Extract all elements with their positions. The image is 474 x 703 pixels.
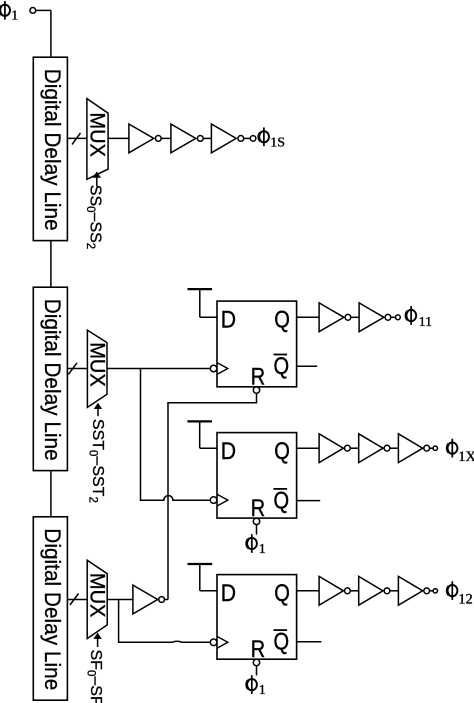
digital delay line U1 bbox=[33, 57, 67, 240]
wire MUX3 output branch to FF3 clock bbox=[119, 600, 211, 643]
inverter U7 bbox=[359, 303, 391, 332]
select arrow MUX1 bbox=[93, 172, 101, 187]
svg-text:Digital Delay Line: Digital Delay Line bbox=[40, 528, 65, 690]
flip-flop FF1 bbox=[210, 301, 296, 393]
svg-text:Q: Q bbox=[274, 629, 290, 656]
node phi11 output label bbox=[406, 306, 432, 330]
wire MUX2 output to FF1 clock bbox=[107, 368, 210, 370]
wire U6 to U7 bbox=[351, 316, 359, 318]
wire delay line 3 to MUX3 (bus) bbox=[67, 599, 87, 601]
inverter U6 bbox=[319, 303, 351, 332]
wire FF1 Q output bbox=[297, 316, 320, 318]
wire FF2 R input stem bbox=[256, 525, 258, 535]
bus slash MUX3 input bbox=[70, 594, 79, 606]
wire U10 output to FF1 R line bbox=[165, 598, 169, 600]
svg-text:1: 1 bbox=[259, 542, 266, 557]
svg-text:D: D bbox=[221, 438, 236, 465]
svg-text:12: 12 bbox=[458, 592, 473, 608]
output terminal phi12 bbox=[433, 589, 437, 593]
svg-text:SS0–SS2: SS0–SS2 bbox=[84, 185, 104, 249]
svg-text:Digital Delay Line: Digital Delay Line bbox=[40, 299, 65, 461]
wire delay line 2 to delay line 3 bbox=[50, 471, 52, 517]
output terminal phi1X bbox=[433, 446, 437, 450]
svg-text:MUX: MUX bbox=[86, 112, 109, 156]
svg-text:1S: 1S bbox=[270, 135, 285, 150]
node phi1 label FF3 reset bbox=[247, 675, 266, 698]
inverter U2 bbox=[129, 124, 161, 153]
select arrow MUX2 bbox=[94, 403, 102, 417]
svg-text:Digital Delay Line: Digital Delay Line bbox=[40, 69, 65, 231]
wire FF3 R input stem bbox=[256, 666, 258, 676]
inverter U4 bbox=[211, 124, 243, 153]
inverter U10 bbox=[133, 585, 165, 614]
input terminal phi1 bbox=[30, 7, 36, 13]
svg-text:Q: Q bbox=[274, 487, 290, 514]
inverter U11b bbox=[359, 576, 390, 605]
flip-flop FF3 bbox=[210, 575, 296, 666]
inverter U3 bbox=[171, 124, 203, 153]
logic-high tie bar FF3 D input bbox=[188, 564, 218, 591]
svg-text:SF0–SF2: SF0–SF2 bbox=[85, 650, 105, 703]
svg-text:Q: Q bbox=[274, 580, 290, 607]
wire from phi1 terminal to delay line 1 bbox=[36, 10, 51, 57]
svg-text:1: 1 bbox=[259, 683, 266, 698]
svg-text:SST0–SST2: SST0–SST2 bbox=[86, 419, 106, 503]
wire MUX2 output branch to FF2 clock (with hop) bbox=[141, 369, 211, 501]
logic-high tie bar FF2 D input bbox=[187, 421, 217, 448]
wire U11b to U11c bbox=[390, 590, 399, 592]
wire U11c to phi12 terminal bbox=[430, 590, 434, 592]
svg-text:1: 1 bbox=[11, 9, 18, 24]
svg-text:D: D bbox=[221, 580, 236, 607]
wire U7 to phi11 terminal bbox=[391, 316, 396, 318]
digital delay line U5 bbox=[33, 287, 67, 470]
select arrow MUX3 bbox=[93, 633, 101, 647]
wire MUX1 output to inverter U2 bbox=[108, 137, 129, 139]
net label SST0-SST2 bbox=[86, 419, 106, 503]
logic-high tie bar FF1 D input bbox=[188, 289, 218, 317]
output terminal phi1S bbox=[250, 136, 256, 142]
node phi1 label FF2 reset bbox=[247, 534, 266, 557]
wire FF1 Qbar stub bbox=[297, 365, 318, 367]
node phi1S output label bbox=[259, 127, 285, 150]
svg-text:11: 11 bbox=[419, 315, 432, 330]
output terminal phi11 bbox=[396, 315, 401, 320]
wire U8b to U8c bbox=[390, 447, 399, 449]
wire U2 to U3 bbox=[161, 137, 171, 139]
bus slash MUX2 input bbox=[69, 363, 78, 375]
mux MUX1 bbox=[86, 99, 109, 180]
svg-text:MUX: MUX bbox=[86, 573, 109, 618]
digital delay line U9 bbox=[33, 517, 67, 700]
svg-text:D: D bbox=[221, 306, 236, 333]
svg-text:MUX: MUX bbox=[86, 342, 109, 387]
wire MUX3 output to inverter U10 bbox=[107, 599, 133, 601]
wire delay line 1 to delay line 2 bbox=[50, 241, 52, 288]
wire FF2 Qbar stub bbox=[297, 500, 321, 502]
wire U4 to phi1S terminal bbox=[244, 137, 251, 139]
net label SF0-SF2 bbox=[85, 650, 105, 703]
wire FF1 R to inverter U10 output bbox=[168, 393, 257, 598]
mux MUX3 bbox=[86, 560, 109, 638]
wire U3 to U4 bbox=[203, 137, 211, 139]
flip-flop FF2 bbox=[210, 433, 296, 525]
wire delay line 2 to MUX2 (bus) bbox=[67, 368, 87, 370]
wire FF3 Qbar stub bbox=[297, 641, 322, 643]
svg-text:1X: 1X bbox=[458, 449, 474, 465]
wire delay line 1 to MUX1 (bus) bbox=[67, 137, 87, 139]
node phi12 output label bbox=[447, 581, 473, 607]
inverter U11a bbox=[319, 576, 350, 605]
wire FF3 Q output bbox=[297, 590, 320, 592]
node phi1X output label bbox=[447, 439, 474, 465]
svg-text:Q: Q bbox=[274, 353, 290, 380]
mux MUX2 bbox=[86, 330, 109, 407]
inverter U8c bbox=[398, 434, 429, 463]
wire FF2 Q output bbox=[297, 447, 320, 449]
svg-text:Q: Q bbox=[274, 438, 290, 465]
svg-text:Q: Q bbox=[274, 306, 290, 333]
wire U8a to U8b bbox=[350, 447, 358, 449]
net label SS0-SS2 bbox=[84, 185, 104, 249]
inverter U11c bbox=[398, 576, 429, 605]
bus slash MUX1 input bbox=[72, 133, 81, 145]
inverter U8a bbox=[319, 434, 350, 463]
wire U11a to U11b bbox=[350, 590, 358, 592]
inverter U8b bbox=[359, 434, 390, 463]
node phi1 input label bbox=[0, 1, 18, 24]
wire U8c to phi1X terminal bbox=[430, 447, 434, 449]
